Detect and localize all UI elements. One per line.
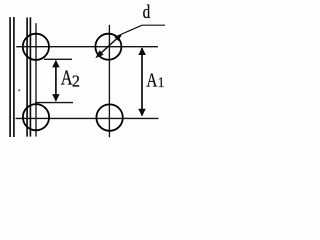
speck artifact <box>18 89 20 91</box>
hole circle bottom-left <box>23 104 49 130</box>
leader line to label d <box>122 25 165 34</box>
wire left column centerline <box>35 23 37 136</box>
wire top row centerline <box>16 46 158 48</box>
hole circle top-left <box>23 34 49 60</box>
svg-text:2: 2 <box>72 71 80 90</box>
svg-text:A: A <box>146 69 157 91</box>
wire plate-edge line 3 <box>26 18 28 137</box>
hole circle bottom-right <box>96 104 122 130</box>
wire tangent line below hole TL <box>44 58 72 60</box>
svg-text:1: 1 <box>158 74 165 91</box>
wire bottom row centerline <box>16 117 159 119</box>
hole circle top-right <box>95 34 121 60</box>
wire plate-edge line 4 <box>29 17 31 136</box>
wire tangent line above hole BL <box>35 102 73 104</box>
svg-text:d: d <box>143 1 151 22</box>
dimension A1 arrow line <box>138 47 146 116</box>
wire plate-edge line 2 <box>13 17 15 137</box>
dimension A2 arrow line <box>52 60 60 102</box>
wire plate-edge line 1 <box>9 17 11 137</box>
diameter arrow across hole TR <box>95 33 122 58</box>
wire right column centerline <box>108 25 110 137</box>
